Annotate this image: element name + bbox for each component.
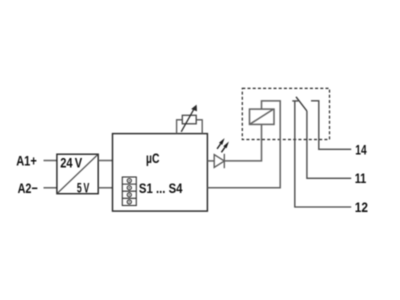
svg-text:5 V: 5 V: [77, 179, 90, 195]
wire uC to relay coil top: [207, 101, 280, 188]
svg-text:A2−: A2−: [18, 180, 38, 196]
LED D1: [214, 154, 224, 168]
wire LED cathode to relay coil bottom: [224, 124, 261, 160]
microcontroller U1 box: [113, 134, 208, 212]
relay coil K1: [250, 109, 275, 124]
relay NO fixed contact and wire to terminal 14: [311, 101, 351, 150]
svg-text:S1 ... S4: S1 ... S4: [139, 180, 183, 196]
potentiometer bracket on uC box top: [177, 120, 203, 134]
svg-text:11: 11: [355, 170, 367, 186]
wire A2- to power supply: [44, 187, 57, 189]
wire power supply to uC (5V line): [98, 187, 112, 189]
DIP switch S1-S4 icon: [122, 177, 136, 206]
power supply diagonal divider: [57, 155, 98, 194]
svg-text:24 V: 24 V: [60, 154, 83, 170]
wire uC to LED anode: [207, 160, 214, 162]
LED light emission arrows: [217, 138, 229, 152]
potentiometer arrow: [181, 105, 197, 132]
relay common contact wire to terminal 11: [307, 111, 351, 178]
relay contact blade (common): [296, 97, 307, 111]
svg-text:14: 14: [355, 141, 366, 157]
relay NC fixed contact and wire to terminal 12: [292, 101, 351, 207]
svg-text:A1+: A1+: [16, 153, 37, 169]
relay dashed outline: [242, 88, 329, 139]
svg-text:12: 12: [355, 199, 368, 215]
power supply 24V/5V converter box: [57, 154, 98, 194]
wire A1+ to power supply: [44, 160, 57, 162]
svg-text:µC: µC: [146, 150, 159, 166]
potentiometer R1 body: [182, 115, 196, 124]
wire power supply to uC (24V line): [98, 160, 112, 162]
